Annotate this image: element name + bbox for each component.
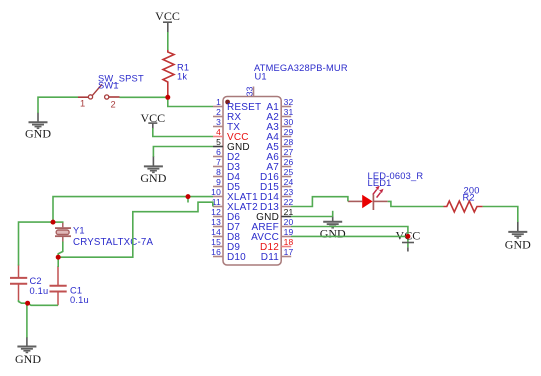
U1 right pin names bbox=[251, 102, 279, 263]
wire U1 pin 19 to VCC right bbox=[291, 235, 408, 237]
svg-text:29: 29 bbox=[284, 127, 294, 137]
svg-text:10: 10 bbox=[211, 187, 221, 197]
svg-text:R2: R2 bbox=[463, 192, 475, 202]
svg-text:8: 8 bbox=[216, 167, 221, 177]
wire LED to R2 bbox=[388, 201, 444, 206]
svg-text:GND: GND bbox=[15, 352, 41, 366]
svg-text:9: 9 bbox=[216, 177, 221, 187]
wire U1 pin 20 to VCC right bbox=[291, 227, 408, 237]
svg-text:31: 31 bbox=[284, 107, 294, 117]
capacitor C2 bbox=[10, 265, 48, 301]
svg-text:20: 20 bbox=[284, 217, 294, 227]
LED LED1 bbox=[348, 171, 423, 210]
U1 left pin stubs 1-16 bbox=[213, 107, 223, 257]
power flag VCC (top, above R1) bbox=[155, 9, 180, 33]
svg-text:7: 7 bbox=[216, 157, 221, 167]
junction crystal bottom bbox=[56, 255, 61, 260]
svg-text:U1: U1 bbox=[255, 72, 267, 82]
svg-text:21: 21 bbox=[284, 207, 294, 217]
wire U1 pin 22 to LED bbox=[291, 197, 348, 207]
svg-text:24: 24 bbox=[284, 177, 294, 187]
wire switch left to GND bbox=[38, 97, 78, 113]
svg-text:GND: GND bbox=[25, 126, 51, 140]
svg-text:17: 17 bbox=[284, 247, 294, 257]
svg-text:27: 27 bbox=[284, 147, 294, 157]
svg-text:LED1: LED1 bbox=[368, 178, 392, 188]
wire U1 pin 21 to GND bbox=[291, 216, 333, 218]
crystal Y1 bbox=[55, 222, 153, 248]
wire VCC top to R1 bbox=[167, 32, 169, 50]
svg-text:3: 3 bbox=[216, 117, 221, 127]
wire crystal top junction to C2 bbox=[19, 222, 54, 265]
U1 pin 33 (top stub) bbox=[245, 86, 255, 96]
ground GND (bottom, crystal caps) bbox=[15, 337, 41, 366]
IC U1 ATMEGA328PB-MUR body bbox=[223, 63, 348, 265]
junction AREF/AVCC at VCC bbox=[405, 234, 410, 239]
svg-text:1: 1 bbox=[80, 99, 85, 109]
ground GND (below switch SW1) bbox=[25, 113, 51, 141]
svg-text:16: 16 bbox=[211, 247, 221, 257]
wire stub above pin-21 GND bbox=[332, 211, 334, 217]
svg-text:14: 14 bbox=[211, 227, 221, 237]
U1 right pin stubs 32-17 bbox=[281, 107, 291, 257]
wire VCC mid to U1 pin 4 bbox=[153, 128, 213, 137]
U1 pin-1 marker dot bbox=[225, 100, 230, 105]
svg-text:GND: GND bbox=[505, 237, 531, 251]
svg-text:C1: C1 bbox=[70, 286, 82, 296]
junction pin-10 wire bbox=[186, 194, 191, 199]
wire junction to U1 pin 1 bbox=[168, 96, 213, 107]
svg-text:1k: 1k bbox=[177, 72, 187, 82]
wire crystal bottom junction to U1 pin 11 bbox=[58, 202, 213, 257]
junction caps bottom bbox=[25, 301, 30, 306]
capacitor C1 bbox=[50, 266, 89, 305]
svg-text:30: 30 bbox=[284, 117, 294, 127]
svg-text:23: 23 bbox=[284, 187, 294, 197]
U1 right pin numbers bbox=[284, 97, 294, 257]
svg-text:26: 26 bbox=[284, 157, 294, 167]
svg-text:Y1: Y1 bbox=[73, 225, 85, 235]
wire bottom junction to C1 bottom bbox=[28, 303, 58, 305]
switch SW1 (SPST) bbox=[78, 74, 144, 110]
junction R1 bottom / switch / pin 1 bbox=[165, 95, 170, 100]
resistor R1 bbox=[163, 50, 189, 97]
svg-text:13: 13 bbox=[211, 217, 221, 227]
svg-text:22: 22 bbox=[284, 197, 294, 207]
power flag VCC (middle, to U1 pin 4) bbox=[140, 111, 165, 129]
wire crystal bottom to junction bbox=[58, 242, 63, 258]
svg-text:GND: GND bbox=[140, 171, 166, 185]
svg-text:18: 18 bbox=[284, 237, 294, 247]
svg-text:GND: GND bbox=[320, 226, 346, 240]
wire U1 pin 5 to GND bbox=[153, 147, 213, 157]
U1 left pin numbers bbox=[211, 97, 221, 257]
svg-text:SW1: SW1 bbox=[98, 81, 119, 91]
ground GND (right of R2) bbox=[505, 222, 531, 252]
svg-text:0.1u: 0.1u bbox=[70, 295, 89, 305]
power flag VCC (right, inverted, AREF/AVCC net) bbox=[396, 228, 421, 251]
svg-text:28: 28 bbox=[284, 137, 294, 147]
svg-text:15: 15 bbox=[211, 237, 221, 247]
svg-text:D10: D10 bbox=[227, 252, 246, 263]
U1 left pin names bbox=[227, 102, 261, 263]
wire stub below pin-10 junction bbox=[187, 197, 189, 203]
svg-text:2: 2 bbox=[216, 107, 221, 117]
svg-text:19: 19 bbox=[284, 227, 294, 237]
svg-text:6: 6 bbox=[216, 147, 221, 157]
svg-text:4: 4 bbox=[216, 127, 221, 137]
wire C2 bottom to bottom junction bbox=[19, 300, 28, 303]
svg-text:5: 5 bbox=[216, 137, 221, 147]
svg-text:32: 32 bbox=[284, 97, 294, 107]
svg-text:1: 1 bbox=[216, 97, 221, 107]
wire crystal top junction to crystal bbox=[53, 221, 64, 223]
wire switch right to R1 bottom junction bbox=[120, 96, 168, 98]
svg-text:C2: C2 bbox=[30, 276, 42, 286]
wire U1 pin 10 to crystal top bbox=[53, 197, 213, 223]
ground GND (U1 pin 21) bbox=[320, 216, 346, 240]
svg-text:CRYSTALTXC-7A: CRYSTALTXC-7A bbox=[73, 237, 153, 248]
svg-text:12: 12 bbox=[211, 207, 221, 217]
svg-text:D11: D11 bbox=[261, 252, 279, 263]
wire R2 to GND bbox=[483, 207, 518, 223]
ground GND (U1 pin 5) bbox=[140, 156, 166, 185]
svg-text:2: 2 bbox=[111, 100, 116, 110]
resistor R2 bbox=[444, 185, 483, 212]
svg-text:ATMEGA328PB-MUR: ATMEGA328PB-MUR bbox=[254, 63, 348, 73]
junction crystal top bbox=[51, 220, 56, 225]
svg-text:0.1u: 0.1u bbox=[30, 286, 49, 296]
wire crystal bottom junction to C1 top bbox=[57, 257, 59, 267]
svg-text:33: 33 bbox=[245, 86, 255, 96]
svg-text:VCC: VCC bbox=[155, 9, 180, 23]
svg-text:25: 25 bbox=[284, 167, 294, 177]
wire bottom junction to GND bbox=[26, 303, 28, 337]
